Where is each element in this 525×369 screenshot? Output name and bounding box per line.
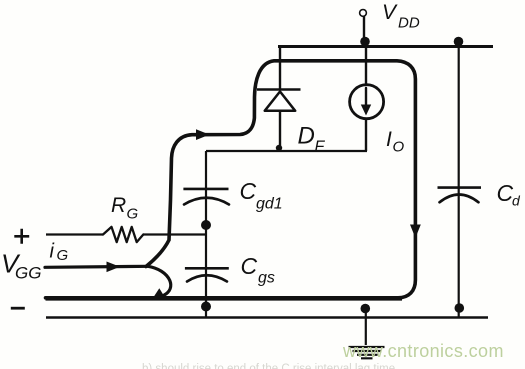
ground symbol bars [349, 347, 385, 358]
wire top rail VDD [278, 45, 493, 48]
diode DF triangle [265, 92, 296, 111]
label DF [298, 123, 326, 156]
svg-text:www.cntronics.com: www.cntronics.com [342, 341, 504, 361]
node junction dot VDD [360, 37, 370, 47]
svg-text:C: C [240, 178, 257, 204]
resistor RG zigzag [103, 227, 143, 242]
wire gate vertical upper (drain wire to Cgd1) [205, 151, 207, 318]
wire VGG+ to resistor [46, 233, 103, 235]
svg-text:G: G [57, 247, 69, 264]
wire drain node horizontal [206, 150, 367, 152]
svg-text:C: C [497, 180, 514, 206]
capacitor Cgd1 curved plate [184, 198, 229, 205]
terminal VDD open circle [360, 10, 367, 17]
capacitor Cd top plate [438, 186, 482, 189]
label VGG [1, 249, 41, 283]
current arrow iG line [45, 266, 148, 267]
node junction dot Cd top [454, 37, 464, 47]
label Cgd1 [240, 178, 283, 213]
ground stem [365, 309, 367, 346]
wire diode anode stem [279, 111, 281, 151]
wire VDD stem [363, 17, 365, 47]
svg-text:G: G [127, 206, 139, 223]
diode DF cathode bar [257, 88, 301, 91]
svg-text:b) should rise to end of the C: b) should rise to end of the C rise inte… [142, 363, 395, 369]
label VDD [382, 1, 420, 32]
label IO [386, 128, 405, 156]
svg-text:O: O [393, 139, 405, 156]
node junction dot gate [201, 220, 211, 230]
svg-text:d: d [512, 193, 521, 209]
capacitor Cgd1 top plate [183, 188, 228, 191]
thick loop arrowhead (gate path, rightward) [196, 129, 210, 140]
svg-text:D: D [298, 123, 315, 150]
wire bottom rail upper (source rail) [46, 298, 403, 300]
current source IO arrow [365, 88, 367, 108]
label Cgs [241, 253, 275, 287]
label Cd [497, 180, 522, 209]
wire diode branch top [279, 47, 281, 90]
svg-text:gd1: gd1 [256, 196, 283, 213]
node junction dot diode-anode [276, 145, 282, 151]
label plus [14, 229, 29, 244]
thick current loop main path [46, 61, 416, 298]
label iG [50, 241, 69, 265]
svg-text:gs: gs [258, 270, 275, 287]
thick loop arrowhead (down right side) [410, 225, 421, 239]
capacitor Cd branch wire upper [458, 47, 460, 318]
capacitor Cgs top plate [185, 267, 229, 270]
current arrow iG head [107, 262, 121, 273]
wire IO bottom stem [365, 119, 367, 151]
current hook into source rail [148, 266, 171, 297]
svg-text:C: C [241, 253, 258, 279]
svg-text:i: i [50, 241, 55, 263]
label RG [111, 194, 139, 223]
capacitor Cd curved plate [440, 195, 479, 203]
capacitor Cgs curved plate [187, 275, 227, 281]
svg-text:R: R [111, 194, 126, 217]
svg-text:F: F [315, 139, 326, 156]
node junction dot ground branch [361, 304, 371, 314]
node junction dot source rail [201, 302, 211, 312]
hook arrowhead [152, 288, 166, 300]
wire resistor to gate [143, 233, 206, 235]
wire IO top stem [365, 47, 367, 85]
current source IO circle [350, 85, 384, 119]
svg-text:I: I [386, 128, 392, 151]
svg-text:GG: GG [15, 264, 41, 283]
wire bottom rail lower [46, 316, 488, 319]
svg-text:V: V [382, 1, 398, 24]
svg-text:DD: DD [398, 15, 420, 32]
label minus [11, 307, 25, 310]
node junction dot Cd bottom [455, 303, 465, 313]
